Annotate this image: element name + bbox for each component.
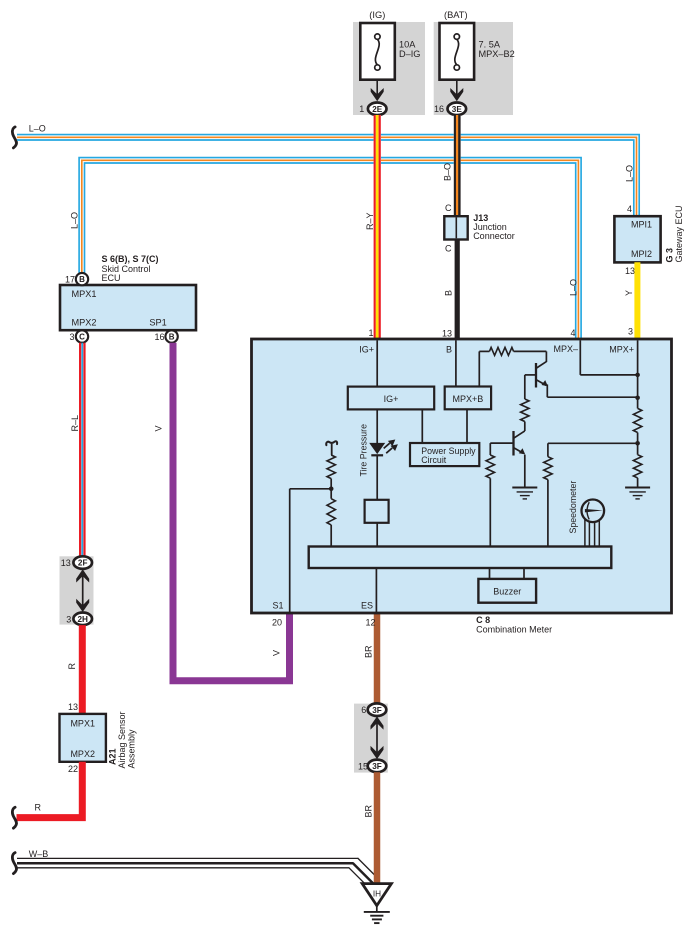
fuse F2 (BAT) 7.5A MPX-B2	[440, 23, 475, 80]
skid control ECU box S6/S7	[60, 285, 196, 330]
label V right	[272, 650, 282, 656]
label Y wire	[624, 290, 634, 296]
label 13 meter pin B	[442, 329, 452, 339]
connector 2E pin 1	[359, 103, 386, 116]
wire B (J13 to meter pin 13)	[455, 240, 460, 342]
label Airbag Sensor Assembly	[117, 711, 137, 768]
svg-text:S1: S1	[273, 601, 284, 611]
svg-text:Tire Pressure: Tire Pressure	[359, 424, 369, 477]
label J13 Junction Connector	[473, 213, 515, 241]
transistor Q2 (lower NPN)	[513, 431, 525, 456]
wire R3 to Q1 collector	[514, 351, 547, 362]
fuse panel background (IG)	[353, 22, 425, 115]
wire divider branch	[548, 443, 638, 456]
svg-text:B: B	[444, 290, 454, 296]
svg-text:G 3: G 3	[665, 248, 675, 263]
svg-text:S 6(B), S 7(C): S 6(B), S 7(C)	[102, 254, 159, 264]
wire lamp block to bus	[376, 523, 378, 547]
svg-text:13: 13	[442, 329, 452, 339]
svg-text:MPX1: MPX1	[72, 289, 97, 299]
svg-text:3: 3	[69, 332, 74, 342]
svg-text:13: 13	[625, 266, 635, 276]
svg-text:1: 1	[368, 328, 373, 338]
svg-text:SP1: SP1	[149, 318, 166, 328]
wire Q2 emitter to ground	[524, 455, 526, 487]
label 4 meter pin MPX-	[570, 328, 575, 338]
svg-text:R: R	[67, 663, 77, 670]
transistor Q1 (upper NPN)	[536, 362, 548, 388]
svg-text:ECU: ECU	[102, 273, 121, 283]
junction dot divider node	[635, 441, 640, 446]
fuse F2 label (BAT)	[444, 10, 468, 20]
label L-O right vertical wire1	[625, 165, 635, 182]
svg-text:Connector: Connector	[473, 231, 515, 241]
wire R (2H to airbag sensor)	[79, 625, 86, 714]
svg-text:6: 6	[361, 705, 366, 715]
wire V (skid control SP1 to meter S1)	[173, 343, 290, 681]
wire S1 branch	[290, 489, 332, 613]
svg-text:MPX1: MPX1	[70, 719, 95, 729]
fuse F1 value 10A D-IG	[399, 40, 420, 60]
bus bar (meter internal)	[309, 547, 612, 569]
svg-text:MPX–: MPX–	[553, 344, 578, 354]
resistor R5 (Q2 base to bus)	[486, 455, 494, 547]
svg-text:13: 13	[61, 558, 71, 568]
label C 8 Combination Meter	[476, 615, 552, 634]
svg-text:MPI2: MPI2	[631, 249, 652, 259]
svg-text:MPX+: MPX+	[609, 345, 634, 355]
wire BR (meter ES to 3F)	[374, 613, 381, 704]
wire break squiggle (W-B)	[12, 853, 16, 874]
block power supply circuit	[410, 443, 479, 466]
svg-text:20: 20	[272, 617, 282, 627]
svg-text:Speedometer: Speedometer	[568, 481, 578, 534]
label 20 meter pin S1	[272, 617, 282, 627]
label 1 meter pin IG+	[368, 328, 373, 338]
label MPX+ pin inside	[609, 345, 634, 355]
svg-text:L–O: L–O	[569, 279, 579, 296]
svg-text:2F: 2F	[78, 559, 88, 568]
svg-text:W–B: W–B	[29, 849, 49, 859]
svg-text:V: V	[154, 425, 164, 431]
wire Q1 emitter to MPX+ node	[547, 384, 637, 397]
label BR lower	[363, 804, 373, 817]
label 12 meter pin ES	[365, 617, 375, 627]
svg-text:16: 16	[434, 104, 444, 114]
svg-text:B–O: B–O	[443, 163, 453, 181]
svg-text:D–IG: D–IG	[399, 49, 420, 59]
svg-text:MPX+B: MPX+B	[453, 394, 484, 404]
svg-text:Combination Meter: Combination Meter	[476, 624, 552, 634]
svg-text:2E: 2E	[372, 105, 383, 114]
sensor hook symbol	[326, 441, 337, 455]
svg-text:3: 3	[66, 614, 71, 624]
wire R4 to Q2 collector	[524, 422, 526, 432]
label B-O	[443, 163, 453, 181]
wire IG+ pin to IG+ block	[376, 340, 378, 386]
wire R-Y (fuse 2E to meter IG+)	[375, 115, 380, 341]
fuse F1 (IG) 10A D-IG	[360, 23, 395, 80]
label 3 meter pin MPX+	[628, 326, 633, 336]
label L-O mpx- vertical	[569, 279, 579, 296]
resistor R8 (MPX+ lower)	[633, 443, 641, 487]
svg-text:MPI1: MPI1	[631, 219, 652, 229]
ground (Q2 emitter)	[512, 488, 537, 499]
resistor R2 (left lower)	[327, 489, 335, 547]
label ES pin inside	[361, 601, 373, 611]
svg-text:R–L: R–L	[70, 415, 80, 432]
resistor R4 (Q1 base to Q2)	[521, 399, 529, 422]
label S 6(B), S 7(C) Skid Control ECU	[102, 254, 159, 283]
svg-text:3F: 3F	[372, 706, 382, 715]
svg-text:MPX2: MPX2	[72, 318, 97, 328]
connector arrows 3F-3F	[371, 716, 384, 759]
svg-text:Buzzer: Buzzer	[493, 587, 521, 597]
label IG+ pin inside	[359, 345, 374, 355]
pin 17 B skid control	[65, 273, 88, 285]
wire R-L (skid control MPX2 to 2F)	[80, 343, 84, 557]
wire ES to meter edge	[375, 568, 377, 613]
airbag sensor A21 box	[60, 714, 106, 762]
wire IG+ block to LED	[376, 409, 378, 443]
svg-text:3E: 3E	[452, 105, 463, 114]
ground symbol (body ground)	[364, 906, 390, 924]
wire R (airbag sensor to break)	[17, 762, 83, 818]
svg-text:L–O: L–O	[70, 212, 80, 229]
label C below J13	[445, 244, 452, 254]
svg-text:MPX2: MPX2	[70, 749, 95, 759]
wires bus to buzzer	[490, 568, 525, 579]
label V left	[154, 425, 164, 431]
label W-B	[29, 849, 49, 859]
svg-text:13: 13	[68, 702, 78, 712]
wire Q2 base	[490, 443, 513, 455]
svg-text:12: 12	[365, 617, 375, 627]
svg-text:MPX–B2: MPX–B2	[479, 49, 515, 59]
label R horizontal	[35, 803, 42, 813]
svg-text:B: B	[169, 333, 175, 342]
arrow from fuse F1 to connector 2E	[371, 80, 384, 102]
label L-O top left	[29, 124, 46, 134]
svg-text:IH: IH	[373, 889, 381, 898]
connector 3F pin 6	[361, 703, 386, 716]
junction dot left	[329, 487, 334, 492]
svg-text:22: 22	[68, 764, 78, 774]
label R-L	[70, 415, 80, 432]
ground (MPX+ divider)	[625, 488, 650, 499]
junction connector J13	[444, 216, 467, 239]
wire break squiggle (R)	[12, 807, 16, 828]
svg-text:7. 5A: 7. 5A	[479, 40, 501, 50]
svg-text:IG+: IG+	[359, 345, 374, 355]
gateway ECU G3 box	[614, 216, 660, 262]
resistor R7 (branch to bus)	[544, 457, 552, 547]
svg-text:C: C	[79, 333, 85, 342]
connector 3E pin 16	[434, 103, 466, 116]
svg-text:2H: 2H	[77, 615, 88, 624]
label C above J13	[445, 203, 452, 213]
fuse panel background (BAT)	[434, 22, 513, 115]
block IG+	[348, 387, 434, 410]
svg-text:Y: Y	[624, 290, 634, 296]
connector 2F pin 13	[61, 556, 92, 569]
svg-text:4: 4	[627, 204, 632, 214]
label S1 pin inside	[273, 601, 284, 611]
connector block 2F/2H background	[60, 556, 94, 624]
label A21 pin 13	[68, 702, 78, 712]
wire R1 to junction	[330, 479, 332, 489]
wire L-O (skid control MPX1 to meter MPX-)	[79, 158, 581, 341]
wire W-B (to ground junction)	[17, 858, 375, 887]
wire BR (3F to ground IH)	[374, 772, 381, 885]
label gateway pin 4	[627, 204, 632, 214]
svg-text:Airbag Sensor: Airbag Sensor	[117, 711, 127, 768]
resistor R6 (MPX+ upper)	[633, 408, 641, 443]
svg-text:BR: BR	[363, 645, 373, 658]
connector arrows 2F-2H	[76, 569, 89, 612]
speedometer M1	[582, 500, 605, 523]
resistor R1 (left upper)	[327, 455, 335, 479]
block MPX+B	[445, 387, 491, 410]
svg-text:L–O: L–O	[625, 165, 635, 182]
wire L-O (top bus to gateway ECU MPI1)	[17, 135, 639, 217]
svg-text:Assembly: Assembly	[127, 729, 137, 769]
svg-text:10A: 10A	[399, 40, 416, 50]
junction dot MPX- node	[635, 373, 640, 378]
svg-text:B: B	[79, 275, 85, 284]
svg-text:V: V	[272, 650, 282, 656]
LED tire pressure	[369, 440, 398, 456]
fuse F2 value 7.5A MPX-B2	[479, 40, 515, 60]
junction dot emitter node	[635, 396, 640, 401]
label R-Y	[365, 212, 375, 230]
label R vertical	[67, 663, 77, 670]
svg-text:Circuit: Circuit	[421, 455, 446, 465]
arrow from fuse F2 to connector 3E	[450, 80, 463, 102]
resistor R3 (horizontal)	[489, 347, 513, 355]
label A21	[108, 748, 118, 765]
wire Q1 base	[525, 375, 536, 399]
label MPX- pin inside	[553, 344, 578, 354]
wire MPX+B to base resistor loop	[479, 351, 489, 386]
svg-text:R: R	[35, 803, 42, 813]
svg-text:(IG): (IG)	[369, 10, 385, 20]
svg-text:17: 17	[65, 274, 75, 284]
fuse F1 label (IG)	[369, 10, 385, 20]
svg-text:ES: ES	[361, 601, 373, 611]
svg-text:B: B	[446, 345, 452, 355]
block indicator lamp	[365, 500, 389, 523]
connector 3F pin 15	[358, 760, 386, 773]
label B pin inside	[446, 345, 452, 355]
svg-text:(BAT): (BAT)	[444, 10, 468, 20]
connector block 3F/3F background	[354, 704, 388, 773]
svg-text:L–O: L–O	[29, 124, 46, 134]
wires speedometer to bus	[585, 520, 599, 547]
pin 16 B skid control	[154, 330, 177, 342]
wire IG+ block to power supply	[421, 409, 423, 443]
wire break squiggle (L-O top left)	[12, 127, 16, 148]
svg-text:3F: 3F	[372, 762, 382, 771]
label Speedometer	[568, 481, 578, 534]
ground triangle IH	[362, 884, 391, 906]
wire B-O (fuse 3E to J13)	[455, 115, 459, 216]
label gateway pin 13	[625, 266, 635, 276]
label B wire	[444, 290, 454, 296]
svg-text:A21: A21	[108, 748, 118, 765]
label Tire Pressure	[359, 424, 369, 477]
svg-text:C: C	[445, 203, 452, 213]
connector 2H pin 3	[66, 613, 92, 626]
label G 3	[665, 248, 675, 263]
wire LED to lamp block	[376, 455, 378, 500]
buzzer B1	[478, 579, 536, 603]
wire MPX+B block to power supply	[466, 409, 468, 443]
wire MPX+ pin down	[637, 340, 639, 408]
pin 3 C skid control	[69, 330, 88, 342]
svg-text:4: 4	[570, 328, 575, 338]
svg-text:16: 16	[154, 332, 164, 342]
svg-text:3: 3	[628, 326, 633, 336]
svg-text:Gateway ECU: Gateway ECU	[674, 205, 684, 262]
combination meter C8 box	[252, 339, 672, 613]
wire MPX- pin to node	[580, 340, 637, 375]
svg-text:IG+: IG+	[384, 394, 399, 404]
label L-O left vertical	[70, 212, 80, 229]
svg-text:BR: BR	[363, 804, 373, 817]
label Gateway ECU	[674, 205, 684, 262]
label BR upper	[363, 645, 373, 658]
svg-text:C: C	[445, 244, 452, 254]
wire B pin to MPX+B block	[455, 340, 457, 387]
svg-text:R–Y: R–Y	[365, 212, 375, 230]
label A21 pin 22	[68, 764, 78, 774]
svg-text:1: 1	[359, 104, 364, 114]
wire Y (gateway MPI2 to meter MPX+)	[634, 262, 640, 341]
